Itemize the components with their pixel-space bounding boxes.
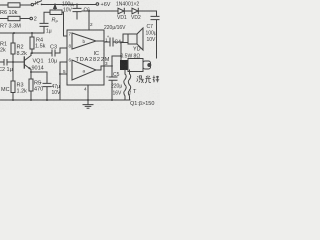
resistor R5 [29,79,33,91]
junction rail C5 [111,99,113,101]
junction rail R5 [30,99,32,101]
wire emitter to C bypass [31,72,47,83]
wire pin1 to C4 [104,41,110,43]
capacitor C1 [40,23,48,33]
op-amp IC box [67,30,104,85]
capacitor C5 [109,77,117,100]
wire top rail left [0,4,31,6]
capacitor C2 [0,60,24,66]
switch K [31,3,33,5]
wire pin1 out [96,40,104,42]
capacitor C6 electrolytic [76,4,78,6]
laser wand plug [120,60,128,70]
wire C3 to pin8 [55,48,67,53]
junction Vcc/pin2 [88,10,90,12]
wire R7 to terminal 2 [0,18,30,20]
potentiometer RP [50,10,62,15]
wire diode feed [82,10,118,12]
junction speaker return node [120,55,122,57]
op-amp A triangle [72,33,96,49]
resistor R2 [12,33,14,43]
capacitor C7 [151,16,159,58]
junction R2 top [13,32,15,34]
resistor R7 [8,16,20,20]
wire ground rail [0,99,130,101]
wire pin3 out [96,66,104,70]
junction emitter node [30,71,32,73]
junction rail bypass cap [46,99,48,101]
wire pins 5,6 ground [60,62,67,100]
wire pin2 [88,11,90,30]
diode VD2 [132,8,138,14]
junction pin5 node [59,73,61,75]
junction base node [12,61,14,63]
junction ground rail pin4 [87,99,89,101]
resistor R4 [31,33,33,37]
op-amp B triangle [72,60,96,80]
resistor R3 [12,62,14,81]
speaker YD [128,34,137,44]
wire collector to C3 [32,52,52,54]
wire pin3 node [104,56,121,77]
wire pin4 ground [87,85,89,100]
terminal 2 [30,17,33,20]
junction collector node [31,52,33,54]
wire speaker return [121,43,128,57]
capacitor C3 [52,50,55,56]
wire C4 to speaker [113,34,128,42]
capacitor C4 [110,38,113,46]
laser wand body [128,59,143,72]
transformer T winding [124,70,126,100]
junction pin3 node [111,65,113,67]
capacitor 47u [43,83,51,100]
label laser wand (drawn CJK) [137,75,160,83]
switch K contact dot [41,4,43,6]
transistor Q1 [23,57,25,68]
ground [83,100,93,108]
junction rail R3 [12,99,14,101]
resistor R6 [8,3,20,7]
wire pot right down to pin7 [62,12,67,36]
junction R4 top [31,32,33,34]
laser wand tip [143,61,151,69]
diode VD1 [118,8,124,14]
wire top rail [42,4,97,6]
terminal +6V [96,3,99,6]
wire pot left to C1 [44,12,50,23]
wire bias rail y33 [0,32,44,34]
wire [124,10,132,12]
wire to C7 [138,11,156,16]
